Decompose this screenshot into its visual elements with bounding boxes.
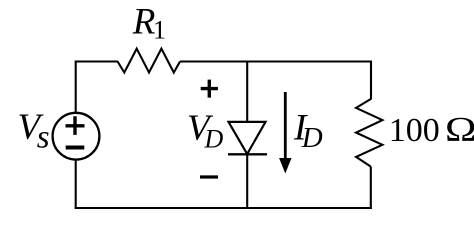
bottom wire <box>75 207 372 209</box>
VS plus sign <box>66 116 85 135</box>
plus polarity mark for VD <box>201 80 218 98</box>
wire right upper <box>370 61 372 100</box>
svg-text:100: 100 <box>389 112 440 149</box>
middle wire lower <box>246 154 248 209</box>
diode D cathode bar <box>228 153 267 155</box>
resistor R1 <box>118 49 180 73</box>
svg-text:R: R <box>132 1 156 42</box>
current arrow ID <box>284 92 287 160</box>
voltage source VS <box>53 113 100 160</box>
wire right lower <box>370 167 372 209</box>
wire left lower <box>75 160 77 210</box>
minus polarity mark for VD <box>200 175 218 178</box>
wire top-left segment <box>76 60 118 62</box>
svg-text:1: 1 <box>153 15 166 44</box>
svg-text:s: s <box>37 119 50 155</box>
svg-text:D: D <box>301 122 323 154</box>
wire top-right segment <box>180 60 371 62</box>
diode D triangle <box>229 122 266 154</box>
wire left upper <box>75 61 77 113</box>
svg-text:Ω: Ω <box>445 110 474 149</box>
VS minus sign <box>66 146 85 150</box>
resistor 100 ohm <box>356 99 382 167</box>
middle wire upper <box>246 61 248 123</box>
svg-text:D: D <box>204 125 224 154</box>
